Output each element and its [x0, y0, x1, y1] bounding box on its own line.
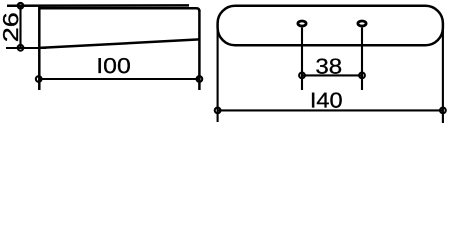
- svg-text:38: 38: [315, 54, 342, 78]
- svg-text:I40: I40: [310, 88, 343, 112]
- svg-text:I00: I00: [96, 54, 131, 78]
- svg-text:26: 26: [0, 12, 23, 42]
